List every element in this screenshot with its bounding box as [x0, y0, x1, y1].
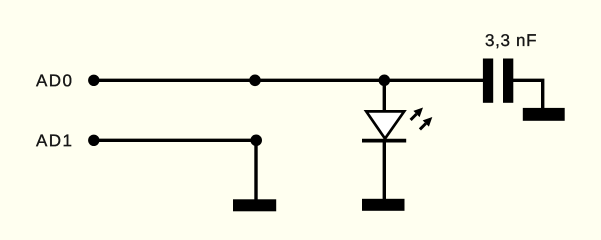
svg-text:3,3 nF: 3,3 nF	[485, 31, 537, 50]
capacitor plate 2	[503, 59, 513, 103]
wire AD0 horizontal	[94, 79, 484, 82]
node AD0 terminal dot	[88, 75, 99, 86]
wire AD0 junction down to LED	[383, 80, 386, 111]
wire LED to ground	[383, 140, 386, 200]
wire capacitor to ground corner	[513, 80, 543, 109]
svg-text:AD0: AD0	[36, 71, 72, 90]
node AD1 end dot	[250, 135, 262, 147]
capacitor plate 1	[483, 59, 493, 103]
ground bar (AD1)	[233, 199, 276, 211]
node AD1 terminal dot	[88, 135, 99, 146]
wire AD1 horizontal	[94, 139, 256, 142]
LED cathode bar	[362, 139, 406, 143]
node junction dot on AD0	[249, 75, 261, 87]
LED D1 triangle	[366, 111, 404, 138]
node junction dot AD0/LED branch	[379, 75, 391, 87]
ground bar (LED)	[362, 199, 405, 211]
LED light arrow 1	[411, 108, 423, 120]
ground bar (capacitor)	[523, 108, 565, 121]
LED light arrow 2	[420, 117, 432, 129]
wire AD1 down to ground	[254, 140, 257, 200]
svg-text:AD1: AD1	[36, 131, 72, 150]
